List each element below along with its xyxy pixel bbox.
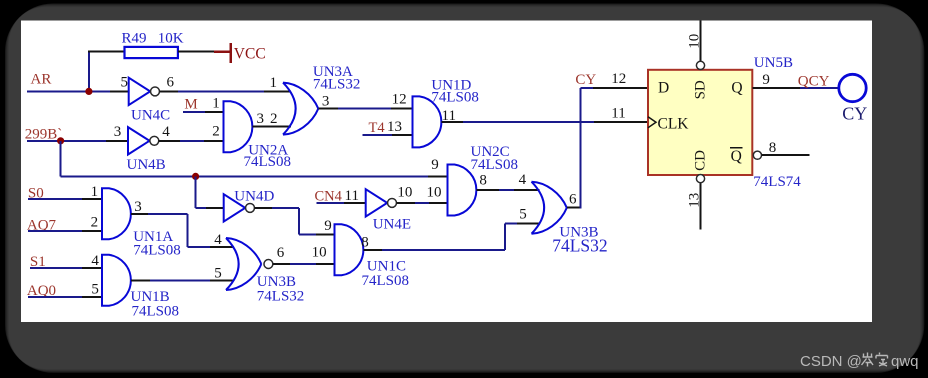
svg-text:5: 5 xyxy=(121,75,129,91)
wire UN2C output to UN3B pin 4 xyxy=(476,189,499,191)
wire UN1D output to CLK xyxy=(441,121,463,123)
wire M xyxy=(183,111,205,113)
wire 299B xyxy=(27,140,106,142)
wire SD pin to top edge xyxy=(700,21,702,62)
inverter UN4D xyxy=(224,194,246,221)
Qbar pin bubble xyxy=(753,151,761,159)
svg-text:5: 5 xyxy=(91,281,99,297)
svg-text:12: 12 xyxy=(392,92,407,108)
svg-text:1: 1 xyxy=(270,75,278,91)
wire 299B branch horizontal xyxy=(61,175,428,177)
svg-text:D: D xyxy=(658,80,669,97)
wire UN3B bottom output to UN1C pin 10 xyxy=(273,263,290,265)
svg-text:UN4D: UN4D xyxy=(234,189,274,205)
junction branch to UN4D xyxy=(192,173,199,180)
svg-text:2: 2 xyxy=(270,111,278,127)
svg-text:74LS32: 74LS32 xyxy=(552,235,607,255)
svg-text:74LS08: 74LS08 xyxy=(133,242,181,258)
svg-text:1: 1 xyxy=(91,184,99,200)
and-gate UN2A xyxy=(224,101,253,152)
wire S0 xyxy=(28,198,82,200)
wire AQ0 xyxy=(28,296,82,298)
svg-text:6: 6 xyxy=(277,245,285,261)
svg-text:8: 8 xyxy=(479,172,487,188)
svg-text:11: 11 xyxy=(345,188,359,204)
or-gate UN3B bottom xyxy=(226,238,239,290)
wire CN4 xyxy=(317,202,345,204)
svg-text:CSDN @: CSDN @ xyxy=(800,353,862,370)
svg-text:12: 12 xyxy=(611,71,626,87)
and-gate UN1C xyxy=(335,224,364,275)
svg-text:5: 5 xyxy=(214,265,222,281)
flip-flop clock triangle xyxy=(648,117,656,128)
svg-text:74LS08: 74LS08 xyxy=(471,157,519,173)
and-gate UN2C xyxy=(448,165,477,216)
svg-text:4: 4 xyxy=(214,232,222,248)
svg-text:2: 2 xyxy=(91,214,99,230)
svg-text:CY: CY xyxy=(842,104,867,124)
svg-text:SD: SD xyxy=(693,80,709,99)
svg-text:74LS32: 74LS32 xyxy=(257,288,305,304)
resistor R49 right pin xyxy=(178,51,214,53)
wire UN4D output to UN1C pin 9 xyxy=(255,207,273,209)
svg-text:4: 4 xyxy=(91,253,99,269)
resistor R49 xyxy=(125,47,178,58)
svg-text:5: 5 xyxy=(519,206,527,222)
svg-text:11: 11 xyxy=(611,105,625,121)
svg-text:AR: AR xyxy=(31,72,52,88)
and-gate UN1A xyxy=(102,188,131,239)
svg-text:74LS74: 74LS74 xyxy=(753,174,801,190)
wire UN4B output to UN2A pin 2 xyxy=(159,140,180,142)
and-gate UN1D xyxy=(413,96,442,147)
svg-text:VCC: VCC xyxy=(234,45,266,62)
svg-text:4: 4 xyxy=(162,124,170,140)
svg-text:74LS32: 74LS32 xyxy=(313,76,361,92)
svg-text:74LS08: 74LS08 xyxy=(431,90,479,106)
or-gate UN3A xyxy=(283,83,296,135)
wire UN1A output to UN3B bottom pin 4 xyxy=(131,213,148,215)
svg-text:UN4B: UN4B xyxy=(127,157,166,173)
svg-text:UN4E: UN4E xyxy=(373,217,411,233)
svg-text:4: 4 xyxy=(519,172,527,188)
wire T4 xyxy=(362,134,392,136)
svg-text:3: 3 xyxy=(114,124,122,140)
wire UN2A output to UN3A pin 2 xyxy=(252,126,291,128)
CD pin bubble xyxy=(696,175,704,183)
svg-text:M: M xyxy=(184,97,197,113)
power port VCC xyxy=(214,51,231,53)
svg-text:13: 13 xyxy=(686,193,702,208)
wire UN3B right output to D input xyxy=(567,207,581,209)
svg-text:3: 3 xyxy=(134,199,142,215)
wire UN3A output to UN1D pin 12 xyxy=(318,108,338,110)
wire 299B branch vertical xyxy=(60,141,62,177)
flip-flop UN5B body xyxy=(648,70,752,175)
svg-text:74LS08: 74LS08 xyxy=(132,304,180,320)
svg-text:T4: T4 xyxy=(369,120,386,136)
wire UN1B output to UN3B bottom pin 5 xyxy=(131,279,150,281)
wire AQ7 xyxy=(28,230,82,232)
svg-text:74LS08: 74LS08 xyxy=(244,154,292,170)
svg-text:CD: CD xyxy=(693,150,709,171)
svg-text:10: 10 xyxy=(427,185,442,201)
svg-text:9: 9 xyxy=(431,157,439,173)
wire UN1C output to UN3B right pin 5 xyxy=(363,249,382,251)
svg-text:9: 9 xyxy=(324,218,332,234)
wire Qbar output xyxy=(762,154,810,156)
svg-text:74LS08: 74LS08 xyxy=(362,273,410,289)
or-gate UN3B bottom output bubble xyxy=(264,260,273,269)
wire CD pin to bottom edge xyxy=(700,183,702,230)
svg-text:6: 6 xyxy=(167,75,175,91)
wire UN4C output to UN3A pin 1 xyxy=(160,90,179,92)
svg-text:2: 2 xyxy=(212,124,220,140)
svg-text:9: 9 xyxy=(762,72,770,88)
inverter UN4B xyxy=(128,127,150,154)
and-gate UN1B xyxy=(102,255,131,306)
svg-text:8: 8 xyxy=(361,235,369,251)
svg-text:qwq: qwq xyxy=(891,353,919,370)
svg-text:Q: Q xyxy=(731,148,742,165)
svg-text:Q: Q xyxy=(731,80,742,97)
wire Q output xyxy=(752,87,800,89)
svg-text:QCY: QCY xyxy=(798,74,830,90)
svg-text:CY: CY xyxy=(575,72,596,88)
svg-text:3: 3 xyxy=(257,111,265,127)
resistor R49 left pin xyxy=(88,51,125,53)
svg-text:1: 1 xyxy=(212,95,220,111)
SD pin bubble xyxy=(696,61,704,69)
svg-text:UN4C: UN4C xyxy=(131,107,170,123)
wire S1 xyxy=(30,267,82,269)
svg-text:10: 10 xyxy=(686,34,702,49)
svg-text:8: 8 xyxy=(769,140,777,156)
wire AR-junction to resistor xyxy=(88,52,90,93)
svg-text:CLK: CLK xyxy=(658,115,690,132)
junction AR-resistor xyxy=(85,88,92,95)
svg-text:13: 13 xyxy=(387,119,402,135)
svg-text:10: 10 xyxy=(397,185,412,201)
junction 299B branch xyxy=(57,137,64,144)
svg-text:3: 3 xyxy=(322,93,330,109)
wire junction to UN4D input xyxy=(195,176,197,208)
or-gate UN3B right xyxy=(532,182,545,234)
svg-text:6: 6 xyxy=(569,192,577,208)
port CY circle xyxy=(839,74,866,101)
svg-text:10: 10 xyxy=(312,245,327,261)
svg-text:UN5B: UN5B xyxy=(754,55,793,71)
inverter UN4C xyxy=(129,78,151,105)
wire AR xyxy=(27,90,110,92)
inverter UN4E xyxy=(366,189,388,216)
wire UN4E output to UN2C pin 10 xyxy=(396,202,415,204)
pin 3 stub UN4B xyxy=(106,140,128,142)
pin 5 stub UN4C xyxy=(110,90,129,92)
svg-text:R49 10K: R49 10K xyxy=(122,30,184,46)
